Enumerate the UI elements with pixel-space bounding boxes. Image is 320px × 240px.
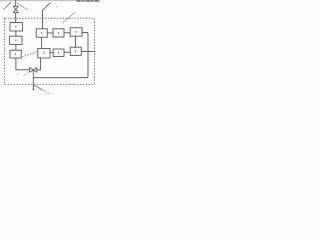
leader line, label 2 (to valve V1) — [17, 3, 28, 10]
wire: A down to E — [41, 37, 43, 48]
wire: valve V2 to riser of E — [37, 58, 41, 70]
valve V1 (gate valve on supply line) — [13, 6, 18, 13]
box B1 (left column, first) — [10, 23, 23, 31]
leader line, label (to valve V2) — [24, 71, 30, 76]
cropped text bar top-right — [76, 0, 100, 2]
leader line, label 3 (bottom, crossing border) — [34, 85, 45, 91]
box E (row 2, middle-left) — [38, 48, 50, 58]
wire: B3 bottom elbow to valve V2 — [16, 58, 30, 70]
speck label left — [17, 74, 18, 75]
wire: F to D — [64, 51, 70, 53]
scan edge band along top — [0, 0, 100, 1]
wire: A to B — [47, 32, 53, 34]
box B2 (left column, second) — [10, 36, 22, 44]
box B (row 1, middle) — [53, 29, 64, 37]
wire: drop line below valve — [32, 70, 34, 90]
box B3 (left column, third) — [10, 50, 21, 58]
wire: E to F — [50, 52, 53, 54]
box A (row 1, middle-left) — [36, 29, 47, 37]
wire: C output elbow down right side — [33, 32, 88, 77]
wire: switch to box A — [41, 10, 43, 28]
svg-text:Fig. 1: Fig. 1 — [46, 91, 54, 95]
leader line, label 1 (top-left corner) — [3, 2, 11, 9]
wire: B2 to B3 — [15, 44, 17, 50]
box C (row 1, right) — [70, 28, 82, 36]
box F (row 2, middle) — [53, 49, 64, 57]
wire: B1 to B2 — [15, 31, 17, 36]
dashed enclosure border — [5, 18, 95, 84]
wire: supply line into valve — [15, 0, 17, 6]
leader line, label 8 (crossing top border) — [56, 6, 76, 23]
wire: B to C — [64, 32, 70, 34]
valve V2 (horizontal, on drain line) — [30, 67, 37, 72]
switch S1 (top centre) — [42, 2, 52, 10]
node: blob at drop end — [33, 89, 35, 91]
wire: valve V1 to box B1 — [15, 13, 17, 23]
wire: C to D — [75, 36, 77, 47]
dashed control line B3 to E — [22, 52, 38, 57]
wire: D output to border — [81, 50, 94, 52]
box D (row 2, right) — [70, 47, 81, 55]
